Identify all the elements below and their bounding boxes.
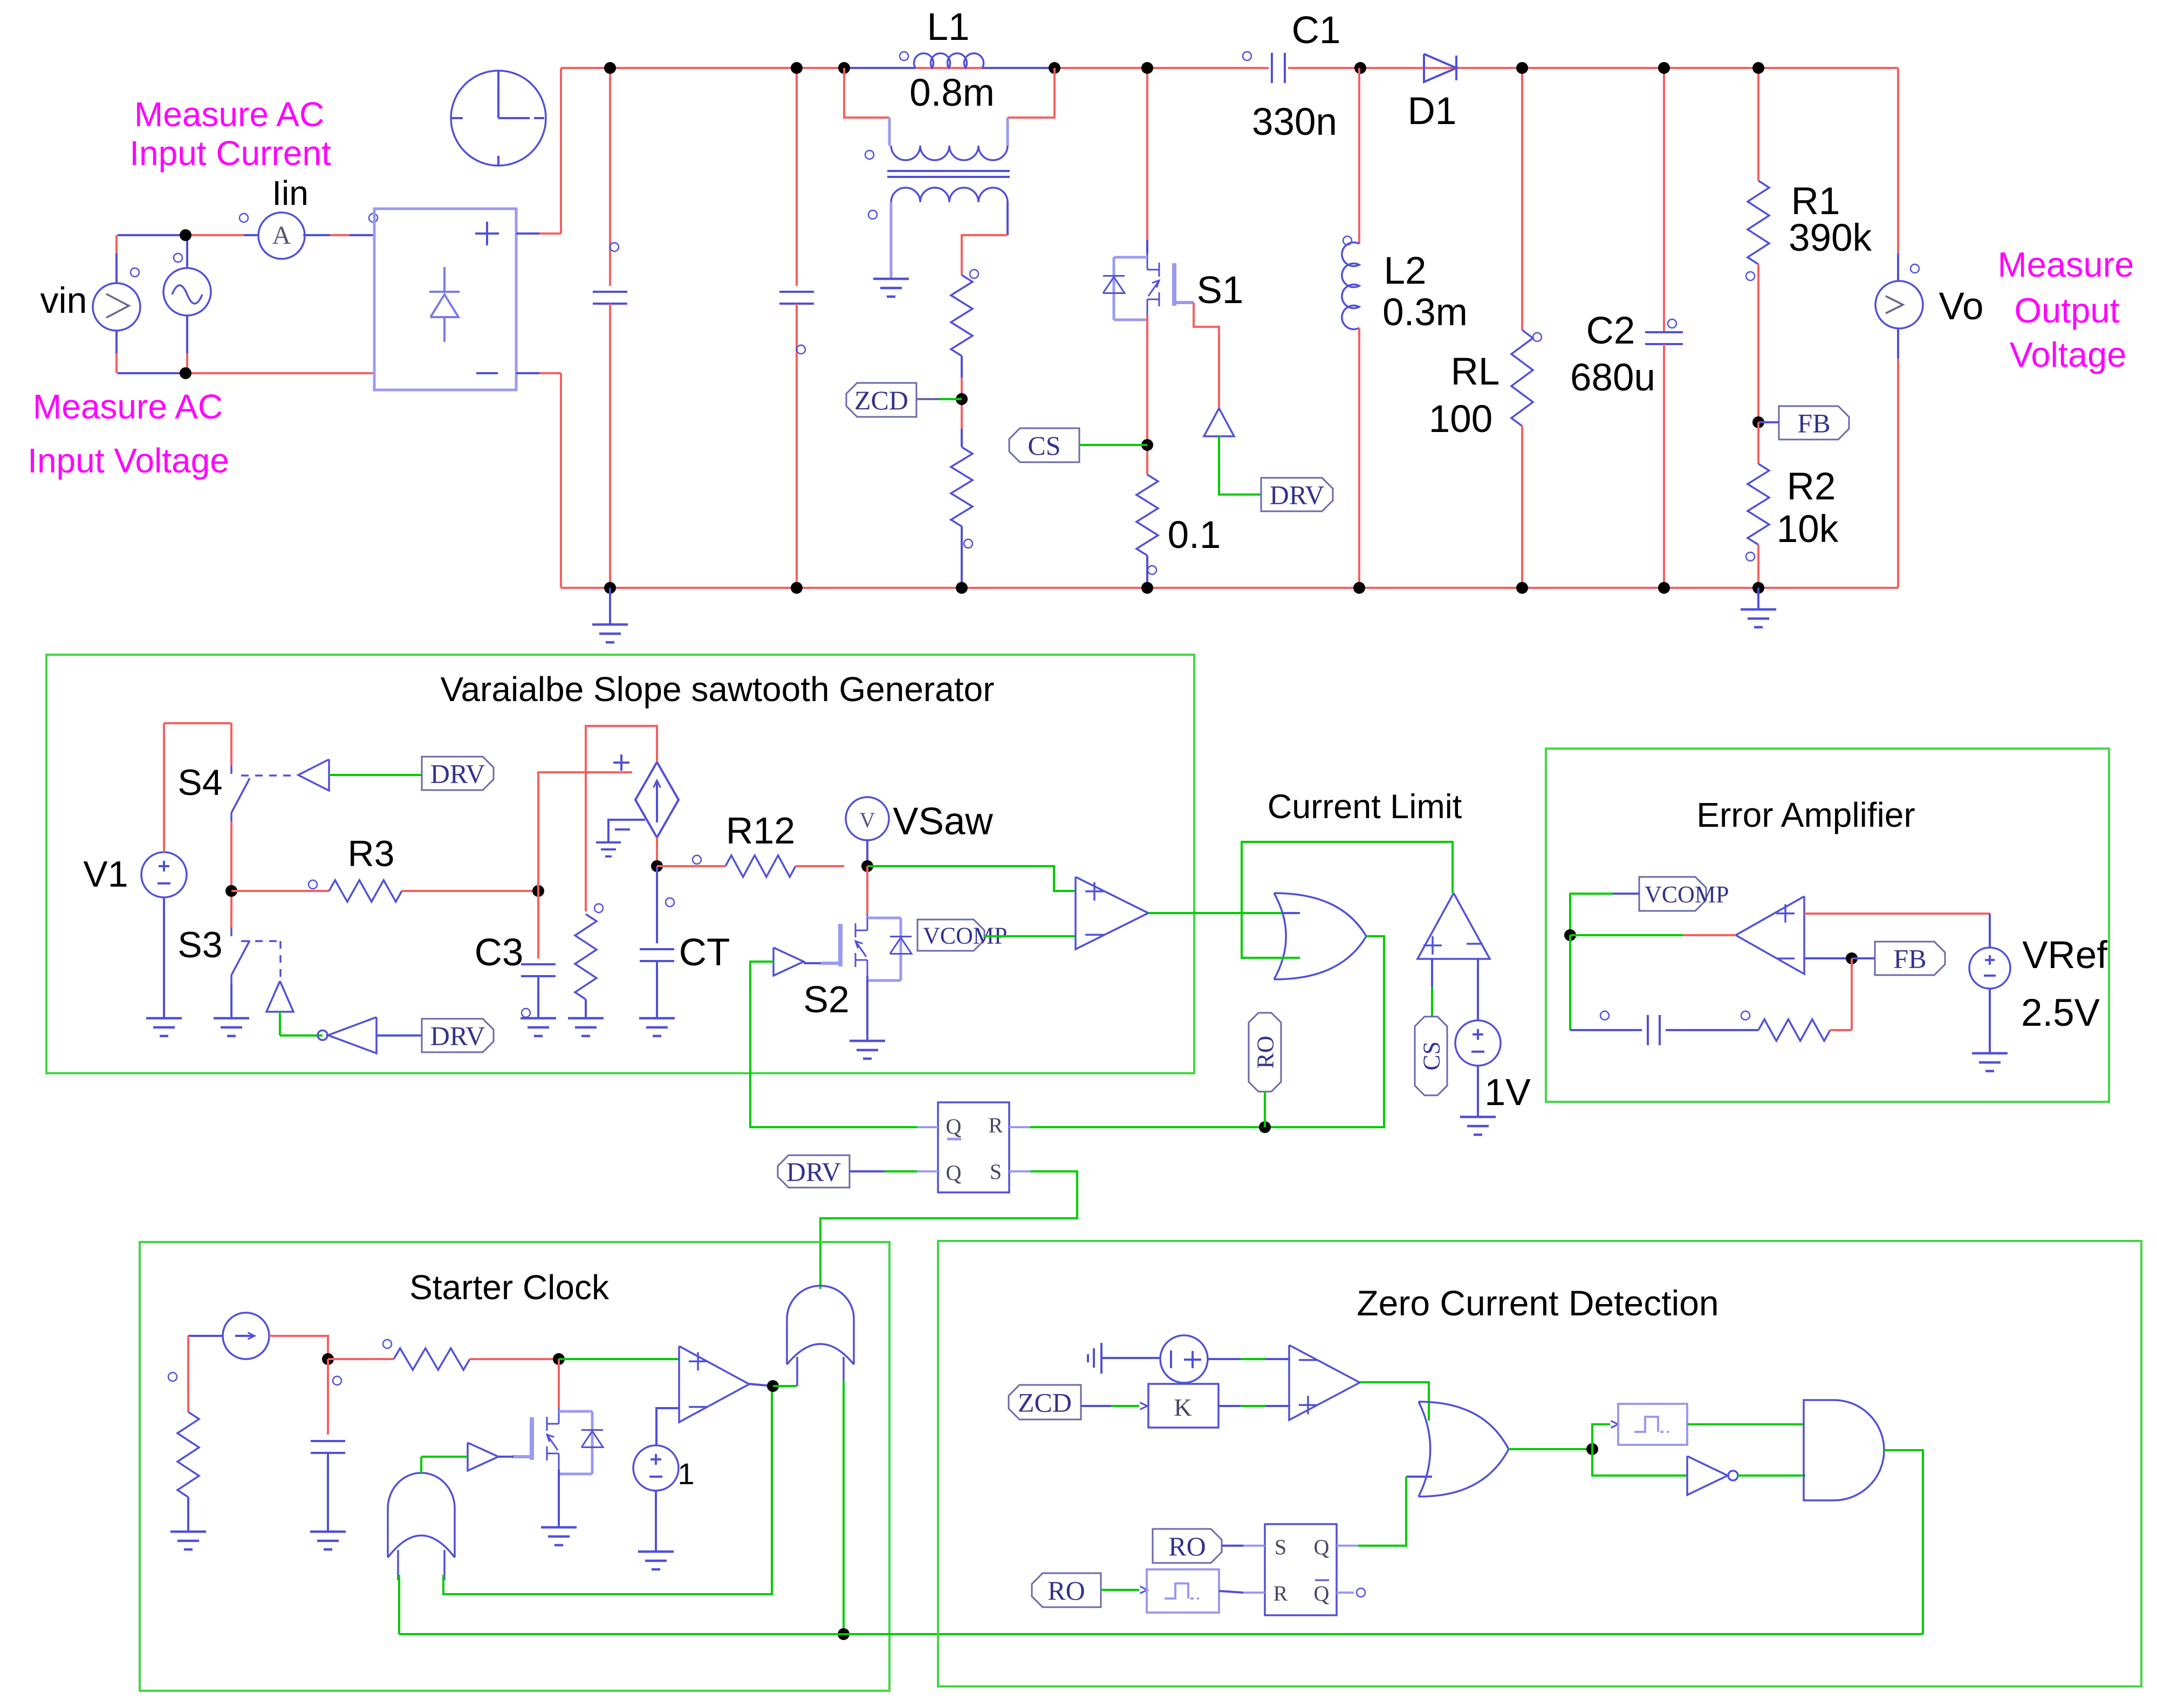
wire L1 bypass left	[844, 68, 889, 118]
resistor Rstart	[177, 1412, 199, 1497]
svg-text:0.8m: 0.8m	[909, 72, 995, 114]
node C2 bottom	[1658, 582, 1670, 594]
wire S4 buf to DRV	[329, 774, 422, 776]
wire comp3 +	[559, 1358, 679, 1360]
node CT top	[651, 860, 663, 872]
ammeter Iin	[258, 212, 305, 259]
ground 1V	[1477, 1117, 1479, 1118]
svg-text:C2: C2	[1586, 310, 1635, 352]
ground 1 starter	[655, 1552, 657, 1553]
buffer S3 up	[266, 981, 293, 1012]
wire comp2 loop	[1242, 842, 1453, 958]
wire Rzcd mid	[961, 356, 963, 447]
svg-text:DRV: DRV	[430, 1021, 485, 1051]
node CS junction	[1141, 439, 1153, 451]
ground V1	[163, 1018, 165, 1019]
wire VCOMP link	[1613, 893, 1639, 895]
dash S4 control	[241, 774, 294, 777]
and gate A1	[1804, 1400, 1884, 1500]
node L1 left	[838, 62, 850, 74]
node R3 left	[225, 885, 237, 897]
source 1V	[1455, 1020, 1501, 1066]
capacitor Cstart	[327, 1359, 329, 1435]
wire Istart out	[269, 1336, 328, 1359]
inductor L2	[1358, 68, 1360, 244]
wire M1 out	[1687, 1423, 1804, 1425]
wire S2 gate link	[804, 962, 821, 964]
wire S1 drain	[1146, 68, 1148, 240]
wire secondary left to ground	[890, 202, 893, 278]
resistor Rstart2	[328, 1358, 394, 1360]
svg-text:Zero Current Detection: Zero Current Detection	[1357, 1283, 1718, 1323]
wire gnd stub	[609, 588, 611, 625]
svg-text:DRV: DRV	[430, 759, 485, 789]
ground S3	[230, 1018, 232, 1019]
svg-text:V1: V1	[83, 854, 128, 895]
capacitor C1	[1271, 53, 1273, 83]
wire DRV to Q	[850, 1170, 885, 1172]
svg-text:L1: L1	[927, 6, 970, 49]
ground ccvs	[608, 820, 645, 842]
resistor Rv	[575, 914, 597, 999]
svg-text:Iin: Iin	[272, 174, 309, 212]
wire fb link	[1852, 957, 1875, 959]
svg-text:Current Limit: Current Limit	[1268, 788, 1462, 826]
wire comp1 out	[1148, 912, 1284, 914]
svg-text:S3: S3	[177, 924, 222, 965]
node ZCD	[956, 393, 968, 405]
wire Qbar to S2 buffer	[750, 962, 917, 1127]
wire S2 drain	[866, 866, 868, 914]
node VSaw	[861, 860, 873, 872]
node R2 bottom	[1752, 582, 1764, 594]
ground CT	[656, 1018, 658, 1019]
monostable M1	[1592, 1424, 1610, 1449]
buffer startfet gate	[468, 1443, 498, 1471]
wire ZCD green	[916, 398, 940, 400]
wire diamond out	[656, 838, 658, 866]
resistor Rea	[1758, 1019, 1830, 1041]
dash S3 control	[241, 940, 280, 942]
ground Rstart	[187, 1532, 189, 1533]
svg-text:VRef: VRef	[2022, 934, 2107, 977]
svg-text:DRV: DRV	[1270, 480, 1325, 510]
node L2 bottom	[1353, 582, 1365, 594]
node L1 right	[1049, 62, 1060, 74]
svg-text:Q: Q	[946, 1161, 962, 1185]
or gate OR3	[787, 1286, 854, 1364]
svg-text:S: S	[1275, 1535, 1286, 1559]
resistor R12	[657, 865, 725, 867]
not gate zcd	[1592, 1449, 1687, 1476]
svg-text:390k: 390k	[1789, 217, 1872, 259]
capacitor CT	[656, 866, 658, 943]
svg-text:330n: 330n	[1252, 101, 1337, 143]
wire input top	[118, 234, 186, 236]
svg-text:Measure AC: Measure AC	[33, 387, 223, 426]
flipflop U1	[938, 1102, 1009, 1192]
wire OR2 out	[420, 1457, 422, 1473]
svg-text:Q: Q	[946, 1114, 962, 1138]
inductor L1	[844, 67, 915, 69]
buffer S2 gate	[773, 948, 804, 976]
svg-text:Measure: Measure	[1998, 245, 2134, 284]
node C3 top	[532, 885, 544, 897]
node ea fb	[1846, 952, 1858, 964]
wire S4-S3	[230, 821, 232, 928]
ground S2	[866, 1041, 868, 1042]
wire RO to M2	[1101, 1589, 1139, 1591]
wire secondary right	[1006, 202, 1009, 235]
svg-text:2.5V: 2.5V	[2021, 992, 2100, 1034]
voltage probe Vo	[1875, 281, 1923, 328]
wire VCOMP to comp-	[984, 935, 1076, 937]
ground main	[609, 625, 611, 626]
pill RO upper	[1153, 1529, 1222, 1563]
resistor Rzcd2	[951, 447, 973, 526]
svg-text:R2: R2	[1787, 465, 1836, 508]
svg-text:Input Voltage: Input Voltage	[28, 441, 229, 480]
svg-text:FB: FB	[1797, 408, 1830, 438]
signal ground zcd	[1103, 1357, 1160, 1359]
svg-text:100: 100	[1429, 398, 1492, 441]
wire rea up	[1830, 1029, 1852, 1031]
svg-text:Q: Q	[1314, 1581, 1330, 1606]
ground transformer	[890, 279, 892, 280]
svg-text:ZCD: ZCD	[854, 385, 908, 415]
wire OR4 out	[1509, 1448, 1592, 1450]
comparator starter	[679, 1346, 749, 1422]
wire S1 source	[1146, 315, 1148, 475]
wire input bottom	[118, 372, 186, 374]
mosfet S1	[1147, 253, 1148, 270]
node start1	[322, 1353, 334, 1365]
ground Cstart	[327, 1532, 329, 1533]
pill FB	[1779, 406, 1849, 440]
source 1 starter	[633, 1445, 679, 1491]
source V1	[141, 852, 187, 897]
svg-text:R: R	[989, 1113, 1003, 1137]
wire OR1 out	[1030, 936, 1384, 1127]
svg-text:S: S	[990, 1160, 1002, 1184]
buffer DRV S1	[1204, 408, 1234, 436]
pill FB ea	[1875, 942, 1945, 975]
wire comp3 -	[656, 1408, 679, 1445]
wire ccvs sense+	[538, 772, 632, 891]
node C1 right	[1354, 62, 1366, 74]
comparator current limit	[1418, 893, 1490, 959]
svg-text:Error Amplifier: Error Amplifier	[1696, 795, 1915, 834]
pill CS vertical	[1415, 1017, 1447, 1095]
pill DRV S1	[1261, 478, 1333, 511]
pill VCOMP sawtooth	[917, 920, 984, 951]
node bottom wire	[838, 1628, 850, 1640]
svg-text:S4: S4	[177, 762, 222, 803]
node ac top	[180, 229, 191, 241]
resistor Rzcd1	[951, 275, 973, 356]
flipflop U2	[1265, 1524, 1337, 1615]
pill DRV S4	[422, 757, 494, 790]
box error amplifier	[1546, 749, 2109, 1102]
wire RO link	[1264, 1092, 1266, 1127]
clock symbol	[451, 71, 546, 166]
svg-text:ZCD: ZCD	[1018, 1388, 1072, 1418]
box zero current detection	[938, 1241, 2141, 1686]
svg-text:10k: 10k	[1777, 508, 1839, 551]
bottom rail	[561, 587, 1898, 589]
wire comp2 +in	[1431, 959, 1433, 987]
capacitor C3	[537, 891, 539, 958]
or gate OR1	[1274, 893, 1366, 979]
ground VRef	[1989, 1053, 1991, 1054]
wire startfet drain	[558, 1359, 560, 1408]
svg-text:C3: C3	[475, 931, 524, 974]
wire FB	[1758, 421, 1779, 423]
ccvs diamond	[635, 762, 679, 838]
svg-text:L2: L2	[1384, 250, 1427, 292]
node Rzcd2 rail	[956, 582, 968, 594]
wire comp3 to OR3	[773, 1385, 797, 1387]
not gate DRV2	[328, 1017, 376, 1053]
wire startfet source	[558, 1470, 560, 1527]
svg-text:CS: CS	[1028, 430, 1060, 461]
svg-text:K: K	[1174, 1394, 1192, 1421]
node ac bottom	[180, 367, 191, 379]
wire bridge- to bottom rail	[516, 372, 539, 374]
voltage probe vin	[115, 235, 118, 253]
node ea out	[1564, 929, 1576, 941]
minus ccvs	[615, 828, 630, 831]
wire not out	[1738, 1474, 1805, 1477]
comparator zcd	[1289, 1345, 1360, 1420]
svg-text:RO: RO	[1252, 1035, 1278, 1068]
capacitor C2	[1663, 68, 1665, 332]
ground Rv	[585, 1018, 587, 1019]
ground R2	[1757, 588, 1759, 609]
node start2	[553, 1353, 565, 1365]
node RL top	[1516, 62, 1528, 74]
wire VSaw to comp+	[867, 866, 1076, 891]
svg-text:Starter Clock: Starter Clock	[409, 1268, 610, 1307]
pill DRV S3	[422, 1019, 494, 1052]
svg-text:R3: R3	[348, 833, 395, 874]
wire RO to S	[1222, 1545, 1243, 1547]
monostable M2	[1147, 1569, 1219, 1613]
wire Rzcd2 bottom	[961, 526, 963, 588]
capacitor Cf1	[609, 68, 611, 286]
svg-text:Measure AC: Measure AC	[134, 95, 324, 134]
svg-text:R12: R12	[726, 810, 795, 852]
node zcd junction	[1586, 1443, 1598, 1455]
resistor R3	[231, 890, 329, 892]
current source Istart	[223, 1313, 269, 1359]
svg-text:RL: RL	[1451, 351, 1500, 393]
wire comp3 out	[749, 1384, 773, 1386]
wire ea feedback	[1569, 935, 1571, 1030]
svg-text:vin: vin	[40, 280, 87, 321]
comparator sawtooth	[1076, 877, 1148, 949]
wire Rs bottom	[1146, 555, 1148, 588]
wire S3 buf link	[279, 1012, 281, 1035]
svg-text:Q: Q	[1314, 1535, 1330, 1559]
svg-text:680u: 680u	[1570, 356, 1655, 399]
svg-text:Vo: Vo	[1939, 285, 1984, 328]
probe VSaw	[846, 797, 889, 840]
wire S3 bottom	[230, 984, 232, 1018]
or gate OR4	[1419, 1402, 1509, 1497]
wire M2 out	[1219, 1591, 1243, 1593]
wire EA +in	[1804, 913, 1990, 915]
svg-text:D1: D1	[1408, 90, 1457, 133]
wire 1V starter gnd	[655, 1491, 657, 1552]
switch S4	[230, 765, 232, 774]
wire EA -in	[1804, 957, 1852, 959]
plus ccvs	[613, 762, 629, 764]
svg-text:Voltage: Voltage	[2010, 335, 2127, 374]
wire AND out	[1884, 1450, 1923, 1634]
svg-text:1V: 1V	[1484, 1071, 1531, 1113]
wire input top right	[303, 234, 330, 236]
buffer S4	[298, 759, 329, 791]
svg-text:CT: CT	[679, 931, 730, 974]
sensor circle zcd	[1160, 1335, 1208, 1383]
svg-text:RO: RO	[1047, 1575, 1085, 1606]
wire 1V gnd	[1477, 1066, 1479, 1117]
right edge wire	[1897, 68, 1899, 282]
svg-text:DRV: DRV	[786, 1157, 841, 1187]
svg-text:R: R	[1273, 1581, 1288, 1606]
svg-text:VSaw: VSaw	[893, 800, 993, 843]
svg-text:VCOMP: VCOMP	[1645, 881, 1729, 908]
svg-text:C1: C1	[1292, 9, 1341, 52]
svg-text:0.3m: 0.3m	[1382, 291, 1468, 334]
pill RO lower	[1032, 1573, 1101, 1607]
source VRef	[1969, 948, 2010, 989]
svg-text:1: 1	[677, 1457, 694, 1491]
wire Q to OR4	[1358, 1477, 1406, 1546]
pill RO vertical	[1249, 1013, 1281, 1092]
box starter clock	[140, 1242, 889, 1691]
wire comp4 out	[1360, 1382, 1429, 1421]
wire OR1 in upper stub	[1284, 912, 1300, 914]
wire OR2 right leg	[443, 1386, 772, 1594]
ground C3	[537, 1018, 539, 1019]
wire VRef gnd	[1989, 989, 1991, 1053]
wire not to DRV	[376, 1034, 422, 1037]
svg-text:0.1: 0.1	[1168, 514, 1221, 557]
wire ZCD to K	[1081, 1405, 1111, 1407]
wire S1 gate	[1194, 303, 1219, 408]
transformer T1 primary	[891, 146, 1008, 160]
svg-text:RO: RO	[1168, 1531, 1206, 1561]
wire bridge+ to top rail	[516, 232, 539, 235]
svg-text:V: V	[860, 808, 875, 832]
svg-text:S1: S1	[1197, 269, 1244, 312]
svg-text:A: A	[272, 221, 291, 250]
node Rs rail	[1141, 582, 1153, 594]
svg-text:FB: FB	[1893, 944, 1926, 974]
node R1 top	[1752, 62, 1764, 74]
wire OR2 left leg	[398, 1575, 400, 1634]
wire OR3 right leg	[843, 1381, 845, 1634]
svg-text:Varaialbe Slope sawtooth Gener: Varaialbe Slope sawtooth Generator	[441, 670, 995, 709]
wire cea to rea	[1666, 1029, 1758, 1031]
svg-text:Output: Output	[2014, 291, 2119, 330]
svg-text:CS: CS	[1418, 1041, 1444, 1071]
wire S2 source	[866, 976, 868, 1041]
pill ZCD	[846, 383, 916, 417]
block K	[1148, 1384, 1218, 1428]
bridge rectifier	[374, 209, 516, 390]
node comp3 out	[767, 1380, 779, 1392]
top rail	[561, 67, 1269, 69]
wire ccvs loop	[586, 726, 657, 911]
node S1 top	[1141, 62, 1153, 74]
mosfet start	[558, 1408, 560, 1424]
node RL bottom	[1516, 582, 1528, 594]
resistor R2	[1757, 422, 1759, 464]
pill DRV main	[778, 1155, 850, 1188]
capacitor Cea	[1647, 1015, 1649, 1045]
svg-text:Input Current: Input Current	[129, 134, 331, 173]
pill VCOMP ea	[1639, 877, 1706, 911]
node C2 top	[1658, 62, 1670, 74]
svg-text:S2: S2	[803, 978, 850, 1020]
node FB	[1752, 416, 1764, 428]
node RO junction	[1259, 1121, 1271, 1133]
box Variable Slope Sawtooth Generator	[46, 655, 1194, 1073]
diode D1	[1424, 54, 1456, 82]
transformer T1 secondary	[891, 188, 1008, 202]
ac source Vin	[186, 235, 188, 268]
resistor R1	[1757, 68, 1759, 181]
wire S input route	[820, 1171, 1077, 1289]
wire buffer to DRV	[1219, 436, 1261, 495]
bottom green wire	[399, 1633, 1923, 1635]
wire CS green	[1079, 444, 1147, 446]
pill ZCD2	[1009, 1385, 1081, 1419]
switch S3	[230, 928, 232, 936]
opamp EA	[1736, 896, 1804, 974]
or gate OR2	[388, 1473, 455, 1558]
resistor RL	[1521, 68, 1523, 330]
ground startfet	[558, 1527, 560, 1528]
wire EA out	[1683, 934, 1736, 936]
pill CS	[1009, 428, 1079, 462]
mosfet S2	[867, 914, 868, 930]
wire comp2 -in	[1477, 959, 1479, 1020]
capacitor Cf2	[796, 68, 798, 286]
resistor Rs 0.1	[1136, 475, 1158, 555]
transformer T1 core	[887, 170, 1010, 172]
wire K out	[1218, 1405, 1241, 1407]
wire L1 bypass right	[1008, 68, 1054, 118]
